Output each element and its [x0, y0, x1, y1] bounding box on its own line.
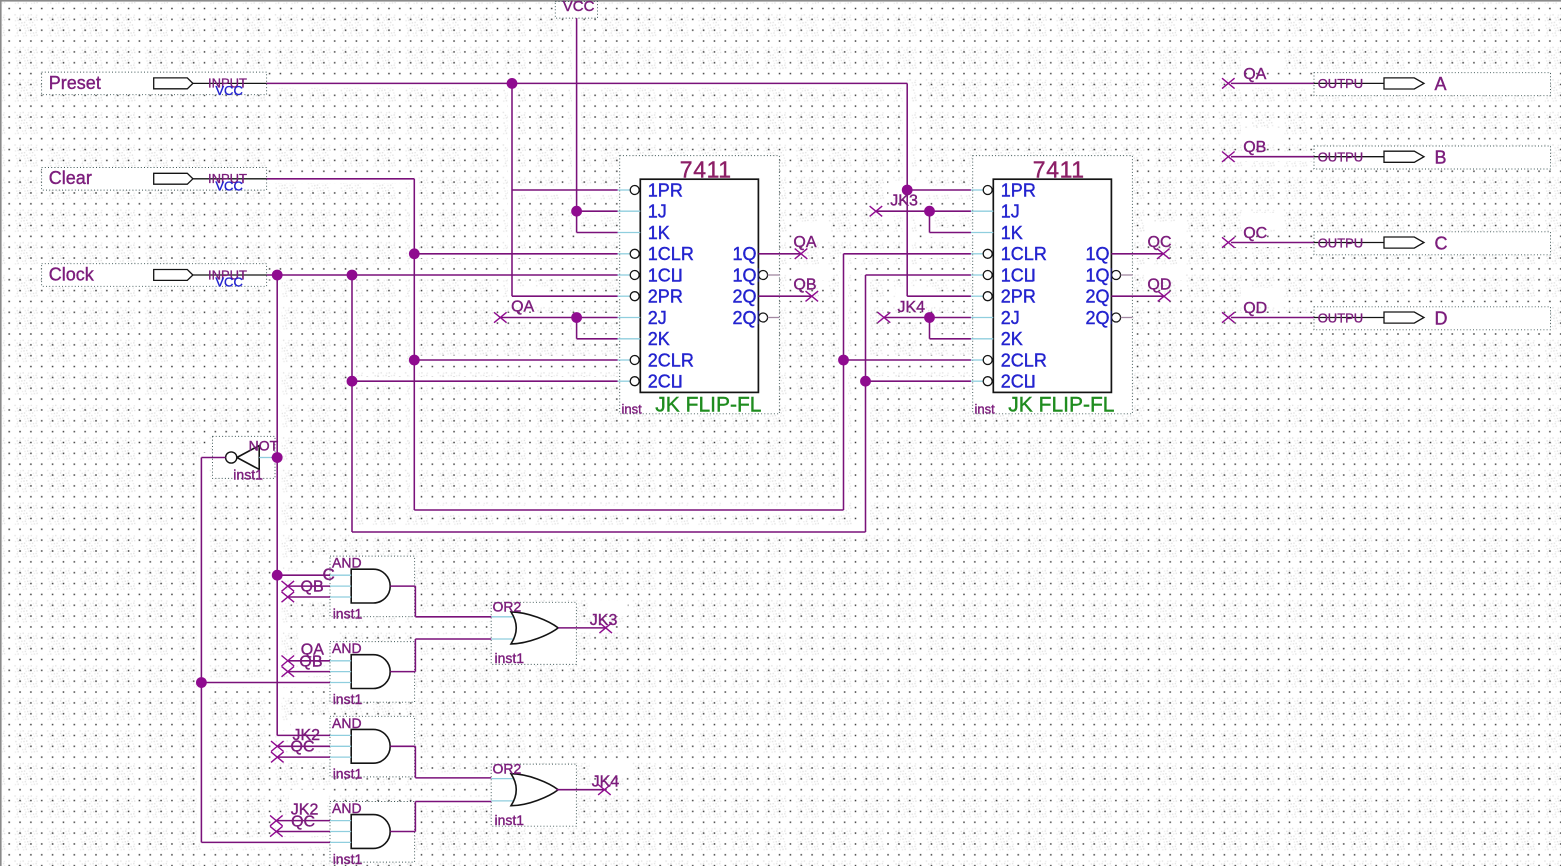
node JK4 at O2 output (unconnected-net cross): [598, 785, 611, 795]
input pin Clock: [49, 264, 267, 289]
svg-text:2CL: 2CL: [648, 372, 681, 392]
svg-text:D: D: [1435, 308, 1448, 328]
chip U2 pin 2QN stub: [1121, 317, 1133, 319]
svg-text:OUTPU: OUTPU: [1318, 235, 1364, 250]
wire JK3 to U2 1J: [876, 210, 971, 212]
junction NOTout-A2 branch: [196, 677, 207, 688]
node QB at U1 2Q (unconnected-net cross): [806, 291, 819, 301]
svg-text:2CLR: 2CLR: [1001, 350, 1047, 370]
wire A2 mid input: [288, 671, 330, 673]
junction Clock-NOT branch: [272, 452, 283, 463]
pin stub AND A3 input 3: [330, 756, 351, 758]
pin stub AND A4 input 3: [330, 841, 351, 843]
svg-text:OUTPU: OUTPU: [1318, 150, 1364, 165]
node A2 mid input net (unconnected-net cross): [282, 666, 295, 676]
wire A3 mid input: [277, 745, 330, 747]
wire JK3 branch to U2 1K: [930, 211, 971, 232]
wire U1 1Q to QA cross: [758, 253, 801, 255]
svg-text:QB: QB: [299, 654, 322, 671]
pin stub chip U1 pin 2K: [618, 338, 641, 340]
svg-text:JK FLIP-FL: JK FLIP-FL: [655, 394, 761, 417]
pin stub chip U2 pin 2PR: [971, 295, 984, 297]
wire Clock horizontal to U1 1CLK: [267, 274, 618, 276]
wire Clock drop A: [276, 275, 278, 736]
svg-text:inst: inst: [622, 401, 643, 416]
chip U2 pin label 2CLK partial stem: [1032, 375, 1034, 388]
output pin B: [1314, 148, 1447, 168]
pin stub NOT input: [259, 457, 271, 459]
chip U1 pin label 2CLK partial stem: [679, 375, 681, 388]
AND gate inst2 (A2) body: [351, 655, 390, 689]
svg-text:2PR: 2PR: [1001, 287, 1036, 307]
svg-text:C: C: [323, 565, 335, 584]
svg-text:QA: QA: [511, 299, 534, 316]
output pin C: [1314, 233, 1448, 253]
pin stub chip U2 pin 1J: [971, 210, 994, 212]
svg-text:1PR: 1PR: [1001, 180, 1036, 200]
wire JK4 branch to U2 2K: [930, 318, 971, 339]
svg-text:2PR: 2PR: [648, 287, 683, 307]
chip U1 pin label 1CLK partial stem: [679, 269, 681, 282]
chip U2 pin 1PR bubble: [983, 186, 992, 195]
output pin D: [1314, 308, 1448, 328]
junction Preset-U1 branch: [507, 78, 518, 89]
pin stub OR O2 input 1: [491, 778, 516, 780]
node A3 bottom input net (unconnected-net cross): [271, 752, 284, 763]
svg-text:1Q: 1Q: [1086, 244, 1110, 264]
node QC at U2 1Q (unconnected-net cross): [1157, 249, 1170, 259]
node QA at U1 1Q (unconnected-net cross): [795, 249, 808, 259]
NOT gate inst1 body: [237, 446, 259, 470]
node QD at U2 2Q (unconnected-net cross): [1158, 291, 1171, 301]
wire A4 top input: [276, 820, 330, 822]
pin stub AND A1 input 3: [330, 596, 351, 598]
wire A2 output to O1 bottom: [390, 639, 491, 672]
JK flip-flop chip U2 (7411): [993, 179, 1111, 392]
node A4 mid input net (unconnected-net cross): [270, 826, 283, 836]
wire Clear to U1 2CLR: [414, 359, 617, 361]
svg-text:1PR: 1PR: [648, 180, 683, 200]
junction Clock dropA branch: [272, 270, 283, 281]
node JK3 at U2 1J (unconnected-net cross): [870, 206, 883, 216]
pin stub OR O1 input 1: [491, 616, 516, 618]
svg-text:1Q: 1Q: [733, 244, 757, 264]
svg-text:JK3: JK3: [890, 193, 918, 210]
wire Clock to U2 1CLK: [866, 274, 971, 276]
svg-text:1CL: 1CL: [648, 265, 681, 285]
wire A1 mid input: [288, 585, 330, 587]
chip U1 pin 2QN stub: [768, 317, 780, 319]
chip U1 pin 1QN bubble: [759, 271, 768, 280]
pin stub chip U2 pin 1CLR: [971, 253, 984, 255]
svg-text:JK3: JK3: [590, 612, 618, 629]
wire A3 output to O2 top: [390, 746, 491, 778]
svg-text:Clear: Clear: [49, 168, 92, 188]
node net QA at output A (unconnected-net cross): [1222, 78, 1235, 88]
svg-text:2J: 2J: [1001, 308, 1020, 328]
OR gate inst1 (O1) body: [511, 612, 558, 644]
svg-text:QC: QC: [1148, 234, 1172, 251]
svg-text:2J: 2J: [648, 308, 667, 328]
node A3 mid input net (unconnected-net cross): [271, 741, 284, 751]
chip U1 pin 2QN bubble: [759, 313, 768, 322]
svg-text:OUTPU: OUTPU: [1318, 310, 1364, 325]
wire NOT output run: [201, 458, 225, 843]
svg-text:inst1: inst1: [333, 606, 363, 622]
wire Clear to U2 2CLR: [844, 359, 971, 361]
svg-text:AND: AND: [332, 555, 362, 571]
svg-text:JK FLIP-FL: JK FLIP-FL: [1008, 394, 1114, 417]
wire Clear rise to U2: [843, 254, 845, 510]
wire Preset drop to U1: [511, 83, 513, 296]
svg-text:VCC: VCC: [215, 178, 242, 193]
pin stub AND A3 input 1: [330, 734, 351, 736]
pin stub chip U2 pin 1CL: [971, 274, 984, 276]
svg-text:Clock: Clock: [49, 264, 95, 284]
svg-text:JK4: JK4: [592, 774, 620, 791]
svg-text:inst: inst: [975, 401, 996, 416]
pin stub AND A1 input 2: [330, 585, 351, 587]
svg-text:OUTPU: OUTPU: [1318, 76, 1364, 91]
chip U2 pin 1QN bubble: [1112, 271, 1121, 280]
wire net QD to output pin D: [1231, 317, 1314, 319]
wire net QB to output pin B: [1231, 156, 1314, 158]
svg-text:VCC: VCC: [215, 83, 242, 98]
wire NOTout to A4 bottom input: [201, 841, 330, 843]
node net QD at output D (unconnected-net cross): [1222, 312, 1235, 322]
junction Preset-U2 1PR branch: [902, 185, 913, 196]
pin stub chip U1 pin 1K: [618, 232, 641, 234]
junction JK3-1J branch: [924, 206, 935, 217]
pin stub OR O2 input 2: [491, 800, 516, 802]
svg-text:AND: AND: [332, 640, 362, 656]
svg-text:2CLR: 2CLR: [648, 350, 694, 370]
wire Clock rise to U2: [865, 275, 867, 532]
chip U2 pin 2CLR bubble: [983, 356, 992, 365]
svg-text:1K: 1K: [1001, 223, 1023, 243]
junction Clock dropB branch: [347, 270, 358, 281]
wire Clear to U2 1CLR: [844, 253, 971, 255]
wire Clear to U1 1CLR: [414, 253, 617, 255]
chip U1 pin 1PR bubble: [630, 186, 639, 195]
node net QB at output B (unconnected-net cross): [1222, 152, 1235, 162]
svg-text:2Q: 2Q: [1086, 287, 1110, 307]
svg-text:A: A: [1435, 74, 1447, 94]
svg-text:NOT: NOT: [249, 437, 279, 453]
wire VCC drop: [576, 18, 578, 232]
NOT gate output bubble: [226, 452, 237, 463]
svg-text:QD: QD: [1147, 277, 1171, 294]
chip U1 pin 1CLR bubble: [630, 249, 639, 258]
wire JK4 to U2 2J: [884, 317, 971, 319]
wire Preset to U2 1PR: [907, 189, 971, 191]
wire O2 output to JK4 cross: [556, 789, 604, 791]
chip U2 pin 2QN bubble: [1112, 313, 1121, 322]
svg-text:OR2: OR2: [493, 599, 522, 615]
pin stub chip U1 pin 1CL: [618, 274, 631, 276]
svg-text:C: C: [1435, 233, 1448, 253]
pin stub chip U1 pin 1J: [618, 210, 641, 212]
wire QA to U1 2J: [500, 317, 617, 319]
wire Clock drop B: [351, 275, 353, 532]
pin stub OR O1 input 2: [491, 638, 516, 640]
svg-text:QB: QB: [1243, 139, 1266, 156]
svg-text:AND: AND: [332, 715, 362, 731]
svg-text:1K: 1K: [648, 223, 670, 243]
svg-text:VCC: VCC: [563, 0, 595, 15]
pin stub AND A4 input 2: [330, 831, 351, 833]
svg-text:1CL: 1CL: [1001, 265, 1034, 285]
node A2 top input net (unconnected-net cross): [282, 656, 295, 667]
svg-text:7411: 7411: [1033, 156, 1085, 182]
wire Clear horizontal: [267, 178, 415, 180]
chip U2 pin label 1CLK partial stem: [1032, 269, 1034, 282]
junction Clear-1CLR branch: [409, 248, 420, 259]
svg-text:2K: 2K: [1001, 329, 1023, 349]
svg-text:QD: QD: [1243, 300, 1267, 317]
wire A1 output to O1 top: [390, 586, 491, 617]
node net QC at output C (unconnected-net cross): [1222, 237, 1235, 247]
pin stub chip U1 pin 1CLR: [618, 253, 631, 255]
AND gate inst3 (A3) body: [351, 729, 390, 763]
chip U2 pin 2CL bubble: [983, 377, 992, 386]
chip U1 pin 1CL bubble: [630, 271, 639, 280]
pin stub chip U2 pin 2CL: [971, 380, 984, 382]
svg-text:QA: QA: [793, 234, 816, 251]
svg-text:7411: 7411: [680, 156, 732, 182]
svg-text:JK4: JK4: [898, 299, 926, 316]
junction Clear-U2-2CLR branch: [838, 355, 849, 366]
wire net QA to output pin A: [1231, 82, 1314, 84]
svg-text:B: B: [1435, 148, 1447, 168]
wire VCC to U1 1J: [577, 210, 618, 212]
svg-text:1CLR: 1CLR: [1001, 244, 1047, 264]
pin stub chip U1 pin 2CLR: [618, 359, 631, 361]
wire O1 output to JK3 cross: [558, 627, 606, 629]
output pin A: [1314, 74, 1447, 94]
wire Clear bottom run: [414, 509, 843, 511]
wire A4 mid input: [276, 831, 330, 833]
wire Preset horizontal: [267, 82, 908, 84]
pin stub chip U1 pin 1PR: [618, 189, 631, 191]
wire A2 top input: [288, 660, 330, 662]
wire Preset to U1 2PR: [512, 295, 618, 297]
svg-text:1J: 1J: [1001, 202, 1020, 222]
pin stub AND A4 input 1: [330, 820, 351, 822]
pin stub AND A2 input 3: [330, 682, 351, 684]
pin stub chip U2 pin 1PR: [971, 189, 984, 191]
svg-text:inst1: inst1: [495, 812, 525, 828]
junction Clock-2CLK branch: [347, 376, 358, 387]
svg-text:QC: QC: [1243, 225, 1267, 242]
svg-text:inst1: inst1: [233, 467, 263, 483]
wire Clock to A3 top input: [277, 734, 330, 736]
pin stub AND A1 input 1: [330, 574, 351, 576]
chip U2 pin 1CL bubble: [983, 271, 992, 280]
svg-text:2CL: 2CL: [1001, 372, 1034, 392]
svg-text:inst1: inst1: [333, 766, 363, 782]
pin stub AND A3 input 2: [330, 745, 351, 747]
chip U1 pin 2PR bubble: [630, 292, 639, 301]
wire Clock to U2 2CLK: [866, 380, 971, 382]
wire Preset drop to U2: [906, 83, 908, 296]
svg-text:inst1: inst1: [495, 650, 525, 666]
node JK3 at O1 output (unconnected-net cross): [599, 623, 612, 633]
pin stub chip U2 pin 2CLR: [971, 359, 984, 361]
wire Clock bottom run: [352, 531, 866, 533]
junction Clock-A1 branch: [272, 570, 283, 581]
pin stub AND A2 input 2: [330, 671, 351, 673]
svg-text:QB: QB: [793, 277, 816, 294]
svg-text:inst1: inst1: [333, 691, 363, 707]
wire net QC to output pin C: [1231, 242, 1314, 244]
svg-text:OR2: OR2: [493, 760, 522, 776]
svg-text:1J: 1J: [648, 202, 667, 222]
wire U1 2Q to QB cross: [758, 295, 811, 297]
JK flip-flop chip U1 (7411): [640, 179, 758, 392]
svg-text:QB: QB: [301, 579, 324, 596]
node A4 top input net (unconnected-net cross): [270, 815, 283, 826]
node A1 mid input net (unconnected-net cross): [282, 581, 295, 591]
junction QA-2J branch: [571, 312, 582, 323]
wire U2 1Q to QC cross: [1111, 253, 1163, 255]
pin stub chip U1 pin 2PR: [618, 295, 631, 297]
pin stub chip U2 pin 1K: [971, 232, 994, 234]
wire QA branch to U1 2K: [577, 318, 618, 339]
input pin Clear: [49, 168, 267, 193]
wire A1 bottom input: [288, 596, 330, 598]
chip U1 pin 2CLR bubble: [630, 356, 639, 365]
svg-text:inst1: inst1: [333, 851, 363, 866]
junction Clock-U2-2CLK branch: [860, 376, 871, 387]
wire Clear drop: [413, 179, 415, 510]
wire NOTout to A2 bottom input: [201, 682, 330, 684]
wire Preset to U2 2PR: [907, 295, 971, 297]
svg-text:QC: QC: [291, 814, 315, 831]
AND gate inst1 (A1) body: [351, 569, 390, 603]
svg-text:VCC: VCC: [215, 275, 242, 290]
junction JK4-2J branch: [924, 312, 935, 323]
node JK4 at U2 2J (unconnected-net cross): [878, 312, 891, 322]
wire A4 output to O2 bottom: [390, 802, 491, 832]
pin stub AND A2 input 1: [330, 660, 351, 662]
wire U2 2Q to QD cross: [1111, 295, 1164, 297]
svg-text:2K: 2K: [648, 329, 670, 349]
wire A3 bottom input: [277, 756, 330, 758]
chip U1 pin 2CL bubble: [630, 377, 639, 386]
svg-text:1CLR: 1CLR: [648, 244, 694, 264]
svg-text:Preset: Preset: [49, 73, 101, 93]
node QA at U1 2J (unconnected-net cross): [494, 312, 507, 322]
chip U2 pin 1CLR bubble: [983, 249, 992, 258]
node A1 bottom input net (unconnected-net cross): [282, 592, 295, 602]
svg-text:2Q: 2Q: [733, 287, 757, 307]
svg-text:QC: QC: [291, 738, 315, 755]
chip U1 pin 1QN stub: [768, 274, 780, 276]
wire Clock to NOT input: [272, 457, 278, 459]
wire VCC to U1 1K: [577, 232, 618, 234]
svg-text:QA: QA: [1243, 66, 1266, 83]
pin stub chip U2 pin 2K: [971, 338, 994, 340]
svg-text:AND: AND: [332, 800, 362, 816]
AND gate inst4 (A4) body: [351, 815, 390, 849]
pin stub chip U2 pin 2J: [971, 317, 994, 319]
wire Preset to U1 1PR: [512, 189, 618, 191]
input pin Preset: [49, 73, 267, 98]
junction Clear-2CLR branch: [409, 355, 420, 366]
junction VCC-1J branch: [571, 206, 582, 217]
pin stub chip U1 pin 2J: [618, 317, 641, 319]
pin stub chip U1 pin 2CL: [618, 380, 631, 382]
wire Clock to U1 2CLK: [352, 380, 618, 382]
wire Clock to A1 top input: [277, 574, 330, 576]
OR gate inst2 (O2) body: [511, 774, 558, 806]
chip U2 pin 1QN stub: [1121, 274, 1133, 276]
chip U2 pin 2PR bubble: [983, 292, 992, 301]
